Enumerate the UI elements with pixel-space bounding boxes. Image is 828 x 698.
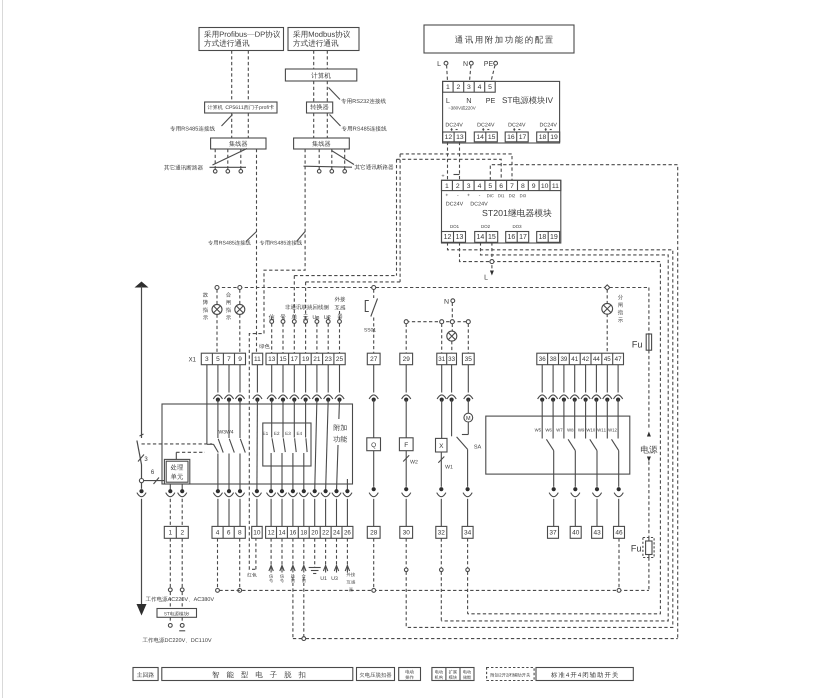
terminal 28 <box>367 526 380 538</box>
power wire to bus y590 <box>648 558 650 591</box>
converter box <box>307 102 333 113</box>
label fault indication (vertical) <box>203 292 208 297</box>
column terminal 31 to X to 32 <box>441 365 443 393</box>
wire terminal 32 with connector <box>440 538 442 568</box>
svg-text:14: 14 <box>279 530 286 537</box>
svg-text:17: 17 <box>519 134 527 141</box>
motor M on terminal 35 column <box>467 365 469 393</box>
terminal group 1 2 <box>164 526 188 538</box>
svg-text:X: X <box>439 443 444 450</box>
svg-text:42: 42 <box>582 356 589 363</box>
junction to close lamp <box>238 286 242 290</box>
power wire below label <box>648 462 650 538</box>
svg-text:34: 34 <box>464 530 472 537</box>
label ~380V or 220V <box>448 106 475 110</box>
wire ST201-5 DIC to right-side bus <box>490 165 677 639</box>
svg-text:16: 16 <box>508 234 516 241</box>
arrow and label U3 under terminal 24 <box>336 538 338 565</box>
label working power DC <box>143 637 212 642</box>
terminal 11 <box>252 353 263 365</box>
wire ST201-14 to terminal 32 via right bus <box>441 242 668 621</box>
svg-text:17: 17 <box>519 234 527 241</box>
label red wire color <box>247 573 256 577</box>
junction to open-indication lamp <box>605 285 610 290</box>
wire pair down to signal-unit terminals <box>396 159 398 275</box>
stub wire to terminal 26 <box>346 479 348 491</box>
wire N-line to terminal 31 <box>441 324 443 354</box>
footer box undervoltage release <box>357 668 395 681</box>
wire ST-IV 13 to ST201 2 (-) <box>459 142 461 181</box>
svg-text:29: 29 <box>403 356 411 363</box>
svg-text:3: 3 <box>467 84 471 91</box>
tiny labels under signal terminals <box>269 574 273 578</box>
svg-text:X1: X1 <box>189 358 197 364</box>
svg-text:M: M <box>466 416 471 422</box>
wire signal-unit terminal 17 from ST201-6 <box>294 275 396 277</box>
trip link from main breaker (dashed) <box>142 443 213 445</box>
svg-text:23: 23 <box>325 356 333 363</box>
svg-text:45: 45 <box>604 356 611 363</box>
ST201 bottom terminals 12-19 <box>442 232 466 243</box>
power flow arrows and label <box>647 432 651 437</box>
svg-text:1: 1 <box>445 183 449 190</box>
contact labels W3 W4 <box>219 430 234 434</box>
main circuit line lower <box>141 483 143 489</box>
svg-text:9: 9 <box>532 183 536 190</box>
wire N-line to terminal 35 <box>467 324 469 354</box>
hub stubs to other breakers (Modbus) <box>318 149 320 170</box>
label external CT (vertical) <box>335 296 346 301</box>
svg-text:36: 36 <box>539 356 546 363</box>
label RS485 cable (Profibus) <box>222 115 233 127</box>
svg-text:12: 12 <box>444 234 452 241</box>
svg-text:2: 2 <box>180 530 184 537</box>
column terminal 29 to F to 30 <box>405 365 407 393</box>
svg-text:6: 6 <box>499 183 503 190</box>
svg-text:33: 33 <box>448 356 455 363</box>
signal unit label <box>269 314 275 320</box>
fuse Fu upper <box>646 334 651 350</box>
svg-text:18: 18 <box>539 134 547 141</box>
coil tag W2 <box>403 455 409 461</box>
label RS232 cable <box>329 88 341 100</box>
footer dashed box additional aux switch <box>487 668 534 681</box>
svg-text:12: 12 <box>445 134 453 141</box>
wire ST201-12 to terminal 30 via right bus <box>406 242 673 627</box>
svg-text:10: 10 <box>541 183 549 190</box>
wire ST201-15 to L line <box>491 242 493 270</box>
terminal 32 <box>436 526 447 538</box>
svg-text:17: 17 <box>291 356 299 363</box>
tap junction to processing unit <box>139 479 143 483</box>
terminal 30 <box>400 526 413 538</box>
wire CP5611 to hub <box>231 113 233 138</box>
svg-text:41: 41 <box>571 356 578 363</box>
label close indication (vertical) <box>226 292 231 297</box>
svg-text:19: 19 <box>302 356 310 363</box>
svg-text:F: F <box>404 442 408 449</box>
wire N to lamp and terminal 33 <box>451 324 453 331</box>
wire terminal 11 to terminal 10 (RS485 pass-through) <box>256 365 258 393</box>
wire ST201-6 loop upper <box>397 159 502 180</box>
footer box electric operation <box>399 668 421 681</box>
svg-text:20: 20 <box>311 530 318 537</box>
label U2 <box>324 315 330 319</box>
computer box (Modbus) <box>285 69 356 81</box>
svg-text:14: 14 <box>476 134 484 141</box>
wire ST201-7 loop upper <box>400 154 512 180</box>
label additional functions <box>330 419 352 445</box>
long dashed L distribution line <box>216 287 649 289</box>
wire N down to junction <box>451 303 453 322</box>
svg-text:10: 10 <box>253 530 261 537</box>
label open indication (vertical) <box>618 295 623 300</box>
label RS485 cable lower-right <box>297 232 306 242</box>
svg-text:32: 32 <box>438 530 446 537</box>
arrow and label U1 under terminal 22 <box>325 538 327 565</box>
svg-text:5: 5 <box>216 356 220 363</box>
junction to fault lamp <box>215 286 219 290</box>
terminal 34 <box>462 526 473 538</box>
ST201 module name <box>482 209 551 217</box>
main circuit line upper with arrow <box>135 282 149 288</box>
svg-text:9: 9 <box>238 356 242 363</box>
main breaker contact <box>140 434 144 436</box>
svg-text:22: 22 <box>322 530 329 537</box>
svg-text:47: 47 <box>615 356 622 363</box>
wire terminal 34 with connector <box>467 538 469 568</box>
wires 16 18 to DIC bus <box>292 577 294 639</box>
fault lamp HL1 <box>216 290 218 305</box>
wire terminal 30 with connector <box>405 538 407 568</box>
ST power module IV bottom terminals 12-19 <box>443 132 466 142</box>
ST201 polarity marks <box>446 194 448 196</box>
footer box standard aux switch <box>536 668 633 681</box>
main circuit bottom arrow <box>137 604 147 616</box>
label other comm breakers (Profibus) <box>213 149 248 166</box>
wire converter to hub <box>313 113 315 138</box>
svg-text:38: 38 <box>550 356 557 363</box>
svg-text:13: 13 <box>456 134 464 141</box>
ST201 DI labels <box>487 194 494 197</box>
terminal 37 <box>548 526 559 538</box>
terminal group 4 6 8 <box>212 526 245 538</box>
svg-text:30: 30 <box>403 530 411 537</box>
DC24V output labels <box>446 123 463 127</box>
wire computer to converter <box>313 81 315 102</box>
ST201 DC24V labels <box>446 202 463 206</box>
svg-text:14: 14 <box>477 234 485 241</box>
N distribution line to terminals 29 31 35 <box>406 321 469 323</box>
svg-text:19: 19 <box>550 234 558 241</box>
label non-communication interlock line side <box>285 304 328 309</box>
svg-text:16: 16 <box>507 134 515 141</box>
power distribution line to voltage terminals 4 6 8 <box>217 538 219 588</box>
pass-through wires Un U2 CT <box>316 365 318 393</box>
svg-text:35: 35 <box>465 356 473 363</box>
label green wire color <box>259 344 270 349</box>
ST201 DO labels <box>450 225 458 228</box>
svg-text:12: 12 <box>268 530 275 537</box>
terminal group 12-26 <box>266 526 353 538</box>
svg-text:11: 11 <box>552 183 559 190</box>
terminal group 31 33 <box>437 353 457 365</box>
column terminal 27 to Q to 28 <box>373 365 375 393</box>
label working power AC <box>146 596 214 601</box>
ST power module IV name <box>502 96 553 104</box>
hub stubs to other breakers (Profibus) <box>214 149 216 170</box>
svg-text:6: 6 <box>227 530 231 537</box>
neutral N input <box>445 299 449 304</box>
svg-text:46: 46 <box>615 530 623 537</box>
svg-text:15: 15 <box>279 356 287 363</box>
svg-text:27: 27 <box>370 356 378 363</box>
terminal stub circles above 13-25 <box>270 320 274 324</box>
footer box intelligent electronic trip unit <box>162 668 353 681</box>
label Un <box>313 315 319 319</box>
svg-text:28: 28 <box>370 530 378 537</box>
terminal 35 <box>462 353 474 365</box>
wire terminal 3 into relay <box>206 365 208 445</box>
terminal group X1: 3 5 7 9 <box>201 353 245 365</box>
main circuit line middle <box>141 465 143 479</box>
contacts under terminals 5 7 9 <box>217 365 219 393</box>
wire ST201-13 to terminal 34 via right bus <box>460 242 661 614</box>
svg-text:26: 26 <box>344 530 351 537</box>
ground symbol under terminal 20 <box>314 538 316 567</box>
footer box main circuit <box>133 668 158 681</box>
svg-text:11: 11 <box>254 356 261 363</box>
power wire below fuse <box>648 350 650 430</box>
green RS485 wire from Profibus hub down to terminal 11 <box>256 149 258 353</box>
terminal 27 <box>367 353 380 365</box>
terminal 43 <box>592 526 603 538</box>
svg-text:2: 2 <box>457 84 461 91</box>
ST power module IV outline <box>443 81 560 143</box>
svg-text:4: 4 <box>478 183 482 190</box>
processing unit box <box>164 459 189 484</box>
mains input PE <box>484 61 492 66</box>
svg-text:8: 8 <box>521 183 525 190</box>
red RS485 wire from Modbus hub down-left to terminal 10 <box>249 149 305 569</box>
svg-text:18: 18 <box>539 234 547 241</box>
mains input N <box>464 61 468 66</box>
svg-text:43: 43 <box>593 530 601 537</box>
L arrow symbol <box>490 271 494 276</box>
svg-text:7: 7 <box>510 183 514 190</box>
open-indication lamp HL3 <box>606 290 608 304</box>
DIC common bus bottom line <box>306 638 678 640</box>
svg-text:39: 39 <box>560 356 567 363</box>
processing unit top lead <box>175 452 177 459</box>
trip link from processing unit (dashed) <box>176 451 205 453</box>
terminal 46 <box>614 526 625 538</box>
terminal 40 <box>570 526 581 538</box>
relay main box <box>162 404 353 484</box>
hub box (Profibus) <box>211 138 266 149</box>
coil tag W1 <box>438 457 444 463</box>
svg-text:19: 19 <box>550 134 558 141</box>
svg-text:7: 7 <box>227 356 231 363</box>
wire N-line to terminal 29 <box>405 324 407 354</box>
svg-text:40: 40 <box>572 530 580 537</box>
terminal 10 <box>252 526 263 538</box>
wire terminal 28 to power bus <box>373 538 375 588</box>
svg-text:16: 16 <box>289 530 296 537</box>
svg-text:31: 31 <box>438 356 445 363</box>
conductor count mark 6 <box>154 478 160 485</box>
close lamp HL2 <box>239 290 241 305</box>
svg-text:15: 15 <box>488 134 496 141</box>
junction to SS01 <box>372 286 376 290</box>
wire from Profibus title to CP5611 card <box>231 51 233 103</box>
power wire from L line down through fuse Fu <box>648 288 650 335</box>
AC supply wires from terminals 1 2 <box>169 538 171 588</box>
contacts E1 E2 E3 E4 <box>271 365 273 393</box>
auxiliary switch box W5-W12 <box>486 416 630 474</box>
title box: Modbus protocol communication <box>288 28 359 51</box>
label other comm breakers (Modbus) <box>304 166 353 167</box>
svg-text:8: 8 <box>238 530 242 537</box>
ST201 top terminals 1-11 <box>442 180 561 190</box>
polarity labels + - <box>442 174 445 177</box>
additional function box E1-E4 <box>263 423 311 466</box>
wire signal-unit terminal 19 from ST201-7 <box>306 281 401 283</box>
changeover switch SA <box>457 437 468 450</box>
auxiliary contacts W5-W12 <box>541 365 543 393</box>
power bus dashed line y590 <box>219 589 649 591</box>
svg-text:15: 15 <box>488 234 496 241</box>
CP5611 interface card box <box>205 102 277 113</box>
processing unit wires to terminals 1 2 <box>169 484 171 491</box>
svg-text:13: 13 <box>456 234 464 241</box>
svg-text:Q: Q <box>371 442 376 449</box>
wire from Modbus title to computer <box>313 51 315 70</box>
svg-text:13: 13 <box>268 356 276 363</box>
svg-text:3: 3 <box>467 183 471 190</box>
footer box motor accessories (3 cells) <box>432 668 474 681</box>
svg-text:25: 25 <box>336 356 344 363</box>
signal output arrows under 12 14 16 18 <box>270 538 272 565</box>
svg-text:37: 37 <box>549 530 557 537</box>
svg-text:1: 1 <box>168 530 172 537</box>
wire ST-IV 12 to ST201 1 (+) <box>447 142 449 181</box>
svg-text:5: 5 <box>488 183 492 190</box>
svg-text:4: 4 <box>216 530 220 537</box>
column terminal 33 to SA <box>451 365 453 393</box>
terminal group 13-25 <box>266 353 345 365</box>
arrow and label external CT under terminal 26 <box>346 538 348 565</box>
pole count mark 3 <box>138 455 144 462</box>
wire terminal 46 to power bus <box>618 538 620 588</box>
optional fuse Fu lower (dashed box) <box>643 538 654 558</box>
ST201 relay module outline <box>442 180 561 243</box>
ST power module I box <box>157 609 197 618</box>
svg-text:44: 44 <box>593 356 600 363</box>
DC supply wires below module I <box>169 592 171 609</box>
W5-W12 contact labels <box>535 429 541 432</box>
svg-text:5: 5 <box>488 84 492 91</box>
svg-text:24: 24 <box>333 530 340 537</box>
svg-text:1: 1 <box>446 84 450 91</box>
title box: Profibus-DP protocol communication <box>199 28 284 51</box>
svg-text:2: 2 <box>456 183 460 190</box>
label RS485 cable lower-left <box>246 232 257 242</box>
terminal group 36-47 <box>537 353 624 365</box>
svg-text:18: 18 <box>300 530 307 537</box>
ST power module IV top terminals 1-5 <box>443 81 496 92</box>
title box: configuration of communication add-on functions <box>424 25 574 53</box>
hub box (Modbus) <box>294 138 350 149</box>
svg-text:21: 21 <box>313 356 321 363</box>
terminal 29 <box>400 353 413 365</box>
svg-text:3: 3 <box>205 356 209 363</box>
switch SS01 <box>373 290 375 299</box>
label RS485 cable (Modbus) <box>330 115 341 127</box>
svg-text:4: 4 <box>478 84 482 91</box>
ST power module IV terminal labels L N PE <box>446 98 449 103</box>
mains input L <box>438 61 441 66</box>
